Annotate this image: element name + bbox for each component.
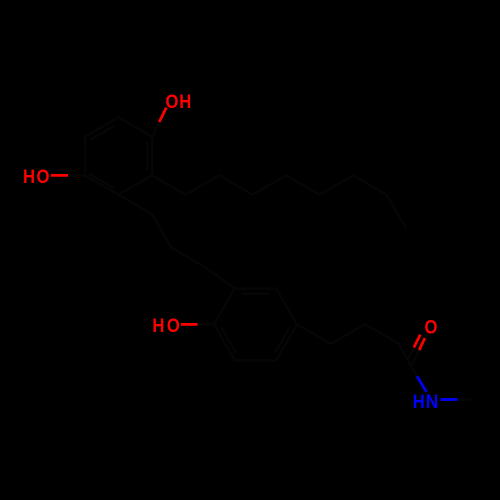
C=O double bond (carbon halves) <box>411 350 419 367</box>
blue N-half of C-N amide bond <box>417 376 427 392</box>
N-CH3 bond (methyl half) <box>458 398 474 400</box>
alkyl chain from ring 1 (octyl zigzag) <box>152 175 406 228</box>
ring 1 aromatic inner bond (right edge) <box>146 142 148 171</box>
benzene ring 2 (center, phenol ring) <box>214 289 297 361</box>
label OH (ring 1 top) <box>166 89 192 112</box>
label O (carbonyl) <box>425 315 438 338</box>
ring 2 aromatic inner bond (top edge) <box>242 293 270 295</box>
svg-text:H: H <box>23 165 35 188</box>
ring 2 aromatic inner bond (lower-left edge) <box>221 328 236 353</box>
C-N amide bond (carbon half) <box>411 367 417 377</box>
red O-half of top OH bond <box>159 108 166 123</box>
svg-text:O: O <box>425 315 438 338</box>
blue N-half of N-CH3 bond <box>441 398 458 401</box>
svg-text:O: O <box>167 313 180 336</box>
label HO (ring 2) <box>152 313 179 336</box>
svg-text:N: N <box>426 390 439 412</box>
ring 2 aromatic inner bond (lower-right edge) <box>275 328 290 353</box>
svg-text:O: O <box>37 165 50 188</box>
red O-halves of C=O double bond <box>419 338 425 350</box>
bond C-O of left HO (carbon half) <box>68 174 85 176</box>
ring 1 aromatic inner bond (upper-left edge) <box>90 125 115 139</box>
red O-half of left HO bond <box>51 174 68 177</box>
benzene ring 1 (top-left, resorcinol-type ring) <box>85 117 152 194</box>
ring 1 aromatic inner bond (lower-left edge) <box>89 174 114 189</box>
propyl bridge ring1 to ring2 <box>119 195 235 289</box>
svg-text:O: O <box>166 89 179 112</box>
label HN (amide) <box>413 389 438 412</box>
svg-text:H: H <box>413 389 425 412</box>
svg-text:H: H <box>152 313 164 336</box>
svg-text:H: H <box>179 89 191 112</box>
chain ring2 to amide carbonyl <box>297 324 411 366</box>
bond C-O of top OH (carbon half) <box>152 122 159 137</box>
bond C-O of center HO (carbon half) <box>198 323 215 325</box>
label HO (ring 1 left) <box>23 165 49 188</box>
red O-half of center HO bond <box>181 323 198 326</box>
